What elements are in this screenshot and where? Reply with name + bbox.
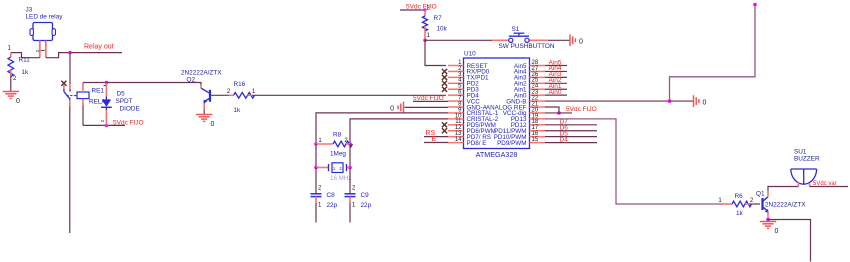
wire Q2 base to R16 xyxy=(210,94,229,96)
U10 pin 19 stub xyxy=(530,118,546,120)
junction dot R8 pin2 xyxy=(348,142,352,146)
wire crystal to C8 xyxy=(315,168,317,194)
wire 5Vdc FIJO stub pin7 xyxy=(413,100,448,102)
junction dot GND-B node xyxy=(668,99,672,103)
junction dot R7 top xyxy=(423,8,426,11)
R8 designator label xyxy=(333,132,342,139)
C8 value label 22p xyxy=(327,202,338,209)
U10 pin 21 number xyxy=(532,101,539,107)
wire D7 stub xyxy=(545,124,597,126)
U10 pin name GND-A xyxy=(467,104,488,111)
U10 pin 25 number xyxy=(532,78,539,84)
wire D5 stub xyxy=(545,136,597,138)
junction dot R7 bottom xyxy=(423,39,427,43)
U10 pin 28 number xyxy=(532,60,539,66)
R11 pin 2 number xyxy=(13,76,17,82)
node E label xyxy=(432,136,437,143)
U10 pin name VCC-dig xyxy=(503,110,527,117)
U10 pin name TX/PD1 xyxy=(467,75,490,82)
C9 value label 22p xyxy=(361,202,372,209)
junction dot crystal pin2 xyxy=(348,166,352,170)
svg-text:0: 0 xyxy=(775,228,779,235)
U10 pin 19 number xyxy=(532,113,539,119)
transistor Q1 xyxy=(763,191,769,218)
node 5Vdc FIJO label left xyxy=(113,120,144,127)
node D7 label xyxy=(560,119,569,126)
U10 pin 8 stub xyxy=(448,106,464,108)
junction dot VCC-dig node xyxy=(557,111,561,115)
U10 pin 5 stub xyxy=(448,88,464,90)
svg-text:0: 0 xyxy=(390,105,394,112)
J3 designator label xyxy=(26,7,33,14)
svg-text:2: 2 xyxy=(352,186,356,192)
ground 0 right of GND-B xyxy=(694,95,707,107)
wire GND-B net xyxy=(545,100,670,102)
U10 pin name PD9/PWM xyxy=(497,140,526,147)
junction dot R8 pin1 xyxy=(314,142,318,146)
Q2 part label 2N2222A/ZTX xyxy=(181,70,222,77)
U10 pin name PD7/ RS xyxy=(467,134,492,141)
U10 pin 17 number xyxy=(532,125,539,131)
no-connect X on contact throw xyxy=(61,81,66,86)
wire PD13 to R6 xyxy=(545,119,723,204)
ground 0 below Q2 xyxy=(196,115,215,129)
U10 pin 18 stub xyxy=(530,124,546,126)
relay RE1 contact xyxy=(64,84,77,106)
SU1 value label BUZZER xyxy=(794,156,820,163)
wire 5Vdc FIJO stub to R7 xyxy=(400,9,425,11)
svg-text:1: 1 xyxy=(318,203,322,209)
U10 pin 14 stub xyxy=(448,142,464,144)
resistor R7 xyxy=(423,10,428,40)
svg-text:SPDT: SPDT xyxy=(116,98,133,105)
R6 pin 2 number xyxy=(750,198,754,204)
resistor R6 xyxy=(723,201,752,207)
SU1 designator label xyxy=(794,149,807,156)
R7 pin 1 number xyxy=(427,33,431,39)
svg-text:1Meg: 1Meg xyxy=(330,151,346,158)
U10 pin 23 number xyxy=(532,90,539,96)
resistor R11 xyxy=(8,53,14,77)
svg-text:Q1: Q1 xyxy=(756,191,765,198)
svg-text:22p: 22p xyxy=(327,202,338,209)
node 5Vdc FIJO label pin7 xyxy=(413,95,444,102)
crystal X1 xyxy=(316,163,350,173)
U10 pin 28 stub xyxy=(530,65,546,67)
C9 pin 1 number xyxy=(352,203,356,209)
wire Q1 emitter node xyxy=(767,218,769,220)
D5 designator label xyxy=(117,91,126,98)
U10 pin name Ain2 xyxy=(514,81,527,88)
U10 pin 5 number xyxy=(458,84,462,90)
wire crystal to C9 xyxy=(349,168,351,194)
no-connect X pin 2 xyxy=(442,69,447,74)
wire Q1 collector up to buzzer xyxy=(768,187,799,192)
node D5 label xyxy=(560,130,569,137)
node Ain0 label xyxy=(549,89,562,96)
op-amp U10 body xyxy=(464,58,530,149)
junction dot Q1 emitter xyxy=(766,218,770,222)
U10 pin 4 stub xyxy=(448,82,464,84)
svg-text:PD8/ E: PD8/ E xyxy=(467,140,487,147)
ground 0 right of S1 xyxy=(570,35,583,47)
buzzer SU1 xyxy=(791,169,817,187)
wire J3 pin2 to Relay out node xyxy=(46,53,122,58)
svg-text:1: 1 xyxy=(718,198,722,204)
U10 pin 3 stub xyxy=(448,76,464,78)
U10 pin 18 number xyxy=(532,119,539,125)
RE1 value label RELAY xyxy=(89,99,110,106)
R16 value label 1k xyxy=(234,107,242,114)
junction dot 5Vdc FIJO node xyxy=(105,124,109,128)
U10 pin name PD8/ E xyxy=(467,140,487,147)
U10 pin name Ain3 xyxy=(514,75,527,82)
R16 designator label xyxy=(234,81,246,88)
U10 pin name Ain4 xyxy=(514,69,527,76)
U10 pin name PD2 xyxy=(467,81,480,88)
U10 pin 16 number xyxy=(532,131,539,137)
U10 pin name RESET xyxy=(467,63,488,70)
svg-text:R6: R6 xyxy=(735,193,744,200)
wire ANALOG REF to VCC-dig xyxy=(545,107,559,113)
U10 pin 2 stub xyxy=(448,70,464,72)
svg-text:1k: 1k xyxy=(234,107,242,114)
R16 pin 2 number xyxy=(227,89,231,95)
node Ain5 label xyxy=(549,59,562,66)
svg-text:5Vdc FIJO: 5Vdc FIJO xyxy=(406,3,437,10)
U10 pin 8 number xyxy=(458,101,462,107)
U10 pin 7 stub xyxy=(448,100,464,102)
U10 pin name RX/PD0 xyxy=(467,69,490,76)
svg-text:1: 1 xyxy=(8,46,12,52)
svg-text:10k: 10k xyxy=(437,26,448,33)
C8 pin 1 number xyxy=(318,203,322,209)
svg-text:ATMEGA328: ATMEGA328 xyxy=(476,150,518,159)
svg-text:2: 2 xyxy=(13,76,17,82)
U10 pin 9 number xyxy=(458,107,462,113)
svg-text:J3: J3 xyxy=(26,7,33,14)
U10 pin 13 stub xyxy=(448,136,464,138)
coil pin 2 number xyxy=(100,119,105,122)
R6 designator label xyxy=(735,193,744,200)
R6 value label 1k xyxy=(736,210,744,217)
wire GND-A to ground xyxy=(405,106,449,108)
svg-text:2: 2 xyxy=(318,186,322,192)
C9 pin 2 number xyxy=(352,186,356,192)
svg-text:1: 1 xyxy=(252,89,256,95)
svg-text:22p: 22p xyxy=(361,202,372,209)
node 5Vdc FIJO label top xyxy=(406,3,437,10)
node D4 label xyxy=(560,136,569,143)
svg-text:2: 2 xyxy=(750,198,754,204)
ground 0 below Q1 xyxy=(760,220,779,236)
junction dot wire end top right xyxy=(753,3,757,7)
svg-text:PD9/PWM: PD9/PWM xyxy=(497,140,526,147)
transistor Q2 xyxy=(201,85,210,110)
svg-text:5Vdc var: 5Vdc var xyxy=(813,181,837,187)
svg-text:LED de relay: LED de relay xyxy=(26,14,64,21)
wire CRISTAL-2 to crystal xyxy=(350,119,448,144)
svg-text:D5: D5 xyxy=(117,91,126,98)
no-connect X pin 11 xyxy=(442,122,447,127)
wire R11 to J3 pin1 xyxy=(11,53,40,58)
U10 pin 10 stub xyxy=(448,118,464,120)
wire C8 bottom xyxy=(315,203,317,223)
U10 pin 27 number xyxy=(532,66,539,72)
U10 pin name PD5/PWM xyxy=(467,122,496,129)
svg-text:D4: D4 xyxy=(560,136,569,143)
U10 pin 12 number xyxy=(455,125,462,131)
U10 designator label xyxy=(464,51,476,58)
resistor R11 pin 1 number xyxy=(8,46,12,52)
svg-text:U10: U10 xyxy=(464,51,476,58)
svg-text:C8: C8 xyxy=(327,192,336,199)
R11 designator label xyxy=(19,57,31,64)
D5 value label SPDT xyxy=(116,98,133,105)
R6 pin 1 number xyxy=(718,198,722,204)
R16 pin 1 number xyxy=(252,89,256,95)
U10 pin 25 stub xyxy=(530,82,546,84)
U10 pin 15 number xyxy=(532,137,539,143)
U10 value label ATMEGA328 xyxy=(476,150,518,159)
node Ain4 label xyxy=(549,65,562,72)
U10 pin 22 number xyxy=(532,95,539,101)
svg-text:SW PUSHBUTTON: SW PUSHBUTTON xyxy=(499,43,555,50)
RE1 designator label xyxy=(92,86,107,95)
U10 pin 9 stub xyxy=(448,112,464,114)
Q1 designator label xyxy=(756,191,765,198)
wire GND-B up and right xyxy=(670,5,756,102)
U10 pin 3 number xyxy=(458,72,462,78)
svg-text:Relay out: Relay out xyxy=(84,44,114,51)
ground 0 at GND-A xyxy=(390,102,403,114)
svg-text:2N2222A/ZTX: 2N2222A/ZTX xyxy=(181,70,222,77)
U10 pin 27 stub xyxy=(530,70,546,72)
svg-text:14: 14 xyxy=(455,137,462,143)
wire Ain5 stub xyxy=(545,65,567,67)
resistor R8 xyxy=(316,141,353,147)
J3 pin 2 xyxy=(45,41,47,58)
resistor R16 xyxy=(229,93,255,99)
U10 pin name PD12 xyxy=(511,122,527,129)
U10 pin 13 number xyxy=(455,131,462,137)
C9 designator label xyxy=(361,192,370,199)
wire contact down long xyxy=(69,106,71,233)
U10 pin 12 stub xyxy=(448,130,464,132)
svg-text:BUZZER: BUZZER xyxy=(794,156,820,163)
capacitor C8 xyxy=(311,194,322,203)
node 5Vdc var label xyxy=(813,181,837,187)
wire crystal left branch xyxy=(315,144,317,168)
wire Ain4 stub xyxy=(545,70,567,72)
node Ain3 label xyxy=(549,71,562,78)
svg-text:SU1: SU1 xyxy=(794,149,807,156)
ground 0 below R11 xyxy=(3,92,20,106)
node RS label xyxy=(426,130,436,137)
R11 value label 1k xyxy=(22,69,30,76)
wire coil node to Q2 collector xyxy=(106,83,201,86)
relay RE1 coil xyxy=(77,83,89,106)
junction dot coil top node xyxy=(105,81,109,85)
R8 value label 1Meg xyxy=(330,151,346,158)
wire GND-B to ground xyxy=(670,100,694,102)
U10 pin 17 stub xyxy=(530,130,546,132)
svg-text:C9: C9 xyxy=(361,192,370,199)
U10 pin name PD6/PWM xyxy=(467,128,496,135)
U10 pin name PD13 xyxy=(511,116,527,123)
U10 pin 20 number xyxy=(532,107,539,113)
junction dot Relay out node xyxy=(68,51,72,55)
node 5Vdc FIJO label pin20 xyxy=(566,106,597,113)
svg-text:2: 2 xyxy=(227,89,231,95)
wire VCC-dig stub xyxy=(545,112,572,114)
svg-text:2N2222A/ZTX: 2N2222A/ZTX xyxy=(765,202,806,209)
U10 pin 24 number xyxy=(532,84,539,90)
svg-text:0: 0 xyxy=(703,99,707,106)
U10 pin 26 number xyxy=(532,72,539,78)
svg-text:15: 15 xyxy=(532,137,539,143)
node Ain2 label xyxy=(549,77,562,84)
U10 pin 21 stub xyxy=(530,106,546,108)
U10 pin 26 stub xyxy=(530,76,546,78)
wire R7 down to U10 pin 1 xyxy=(425,40,446,65)
U10 pin name Ain5 xyxy=(514,63,527,70)
wire D6 stub xyxy=(545,130,597,132)
wire Ain0 stub xyxy=(545,94,567,96)
Q2 designator label xyxy=(187,77,196,84)
node Relay out label xyxy=(84,44,114,51)
U10 pin 14 number xyxy=(455,137,462,143)
no-connect X pin 3 xyxy=(442,75,447,80)
U10 pin name VCC xyxy=(467,98,481,105)
R7 pin 2 number xyxy=(427,6,431,12)
diode D5 xyxy=(101,83,112,126)
U10 pin 10 number xyxy=(455,113,462,119)
D5 value label DIODE xyxy=(120,106,140,113)
svg-text:5Vdc FIJO: 5Vdc FIJO xyxy=(566,106,597,113)
svg-text:1: 1 xyxy=(318,138,322,144)
U10 pin name PD11/PWM xyxy=(494,128,526,135)
S1 value label SW PUSHBUTTON xyxy=(499,43,555,50)
U10 pin 16 stub xyxy=(530,136,546,138)
no-connect X pin 5 xyxy=(442,87,447,92)
svg-text:R8: R8 xyxy=(333,132,342,139)
J3 pin marks xyxy=(35,49,45,52)
U10 pin 2 number xyxy=(458,66,462,72)
svg-text:1: 1 xyxy=(352,203,356,209)
wire Ain2 stub xyxy=(545,82,567,84)
Q1 part label 2N2222A/ZTX xyxy=(765,202,806,209)
C8 designator label xyxy=(327,192,336,199)
U10 pin 22 stub xyxy=(530,100,546,102)
wire S1 to ground xyxy=(548,39,570,41)
wire Q2 emitter to ground xyxy=(203,110,205,115)
R8 pin 1 number xyxy=(318,138,322,144)
no-connect X pin 12 xyxy=(442,128,447,133)
wire coil top xyxy=(83,82,106,84)
U10 pin 24 stub xyxy=(530,88,546,90)
svg-text:DIODE: DIODE xyxy=(120,106,140,113)
svg-text:1: 1 xyxy=(427,33,431,39)
svg-text:S1: S1 xyxy=(512,26,520,33)
svg-text:R16: R16 xyxy=(234,81,246,88)
S1 designator label xyxy=(512,26,520,33)
U10 pin 1 number xyxy=(458,60,462,66)
U10 pin 4 number xyxy=(458,78,462,84)
wire R6 to Q1 base xyxy=(750,203,761,205)
node D6 label xyxy=(560,125,569,132)
wire R7 to S1 xyxy=(425,39,492,41)
connector J3 xyxy=(30,23,56,41)
wire crystal right branch xyxy=(349,144,351,168)
U10 pin 20 stub xyxy=(530,112,546,114)
U10 pin 6 number xyxy=(458,90,462,96)
J3 value label LED de relay xyxy=(26,14,64,21)
svg-text:2: 2 xyxy=(35,49,40,52)
svg-text:1k: 1k xyxy=(736,210,744,217)
C8 pin 2 number xyxy=(318,186,322,192)
U10 pin name CRISTAL-2 xyxy=(467,116,499,123)
svg-text:0: 0 xyxy=(579,39,583,46)
svg-text:5Vdc FIJO: 5Vdc FIJO xyxy=(113,120,144,127)
wire R16 to U10 pin 6 xyxy=(252,94,446,96)
wire R11 to ground xyxy=(10,75,12,91)
svg-text:RE1: RE1 xyxy=(92,88,105,95)
svg-text:2: 2 xyxy=(100,119,105,122)
U10 pin name CRISTAL-1 xyxy=(467,110,499,117)
wire coil bottom to 5Vdc FIJO xyxy=(83,105,125,125)
crystal value label 16 MHz xyxy=(330,175,351,182)
U10 pin name PD4 xyxy=(467,92,480,99)
wire CRISTAL-1 to crystal xyxy=(316,113,448,144)
capacitor C9 xyxy=(345,194,356,203)
node Ain1 label xyxy=(549,83,562,90)
U10 pin name GND-B xyxy=(506,98,526,105)
U10 pin name Ain1 xyxy=(514,87,527,94)
U10 pin 23 stub xyxy=(530,94,546,96)
svg-text:0: 0 xyxy=(211,121,215,128)
U10 pin name Ain0 xyxy=(514,92,527,99)
wire D4 stub xyxy=(545,142,597,144)
wire Ain1 stub xyxy=(545,88,567,90)
svg-text:1k: 1k xyxy=(22,69,30,76)
R7 designator label xyxy=(434,15,443,22)
U10 pin 15 stub xyxy=(530,142,546,144)
R7 value label 10k xyxy=(437,26,448,33)
wire C9 bottom xyxy=(349,203,351,223)
U10 pin name ANALOG REF xyxy=(486,104,527,111)
wire Relay out down to contact xyxy=(69,53,71,84)
wire E stub xyxy=(424,142,448,144)
svg-text:Q2: Q2 xyxy=(187,77,196,84)
pushbutton S1 xyxy=(492,33,548,42)
J3 pin 1 xyxy=(39,41,41,58)
no-connect X pin 4 xyxy=(442,81,447,86)
wire emitter node right and down xyxy=(768,220,811,262)
svg-text:Ain0: Ain0 xyxy=(549,89,562,96)
wire Ain3 stub xyxy=(545,76,567,78)
U10 pin name PD3 xyxy=(467,87,480,94)
U10 pin 7 number xyxy=(458,95,462,101)
wire RS stub xyxy=(424,136,448,138)
U10 pin 11 stub xyxy=(448,124,464,126)
wire buzzer to 5Vdc var xyxy=(810,186,849,188)
U10 pin 1 stub xyxy=(448,65,464,67)
svg-text:0: 0 xyxy=(16,98,20,105)
R8 pin 2 number xyxy=(344,138,348,144)
svg-text:R11: R11 xyxy=(19,57,31,64)
U10 pin 11 number xyxy=(455,119,462,125)
